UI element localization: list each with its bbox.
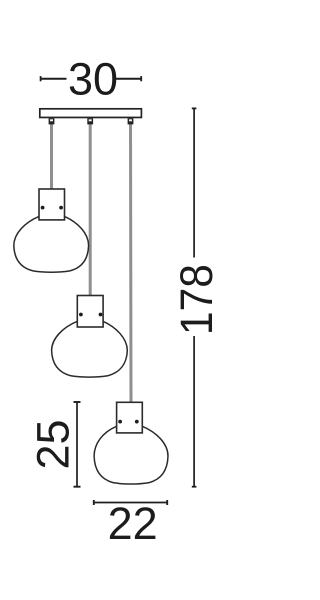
cord 2 — [89, 118, 92, 296]
lamp 1 shade — [14, 216, 89, 272]
lamp 2 socket — [77, 296, 103, 328]
dimension 178 upper segment — [193, 108, 195, 257]
dimension 30 line left segment — [40, 78, 66, 80]
cord 1 — [50, 118, 53, 190]
cord grip 2 — [87, 118, 93, 124]
dimension 25 bottom tick — [74, 486, 81, 488]
lamp 2 screw left — [79, 313, 83, 317]
lamp 1 screw left — [41, 206, 45, 210]
cord grip 1 — [49, 118, 55, 124]
lamp 3 screw left — [118, 420, 122, 424]
dimension 178 lower segment — [193, 336, 195, 487]
lamp 1 screw right — [59, 206, 63, 210]
dimension 178 top tick — [192, 107, 197, 109]
svg-text:25: 25 — [28, 419, 79, 469]
cord grip 3 — [128, 118, 134, 124]
dimension 25 top tick — [74, 401, 81, 403]
lamp 3 screw right — [135, 420, 139, 424]
svg-text:30: 30 — [68, 53, 118, 104]
lamp 3 socket — [117, 402, 143, 433]
dimension 30 line right segment — [116, 78, 142, 80]
svg-text:22: 22 — [108, 498, 158, 549]
canopy bar — [40, 109, 142, 118]
dimension 22 right tick — [166, 500, 168, 505]
lamp 2 shade — [52, 321, 128, 377]
dimension 22 left tick — [93, 500, 95, 505]
lamp 2 screw right — [99, 313, 103, 317]
dimension 25 line — [76, 402, 78, 487]
dimension 30 right tick — [140, 76, 142, 81]
dimension 30 left tick — [40, 76, 42, 81]
dimension 178 bottom tick — [192, 486, 197, 488]
lamp 1 socket — [39, 189, 65, 220]
lamp 3 shade — [94, 426, 168, 484]
svg-text:178: 178 — [171, 264, 222, 335]
dimension 22 line — [94, 502, 168, 504]
cord 3 — [129, 118, 133, 403]
